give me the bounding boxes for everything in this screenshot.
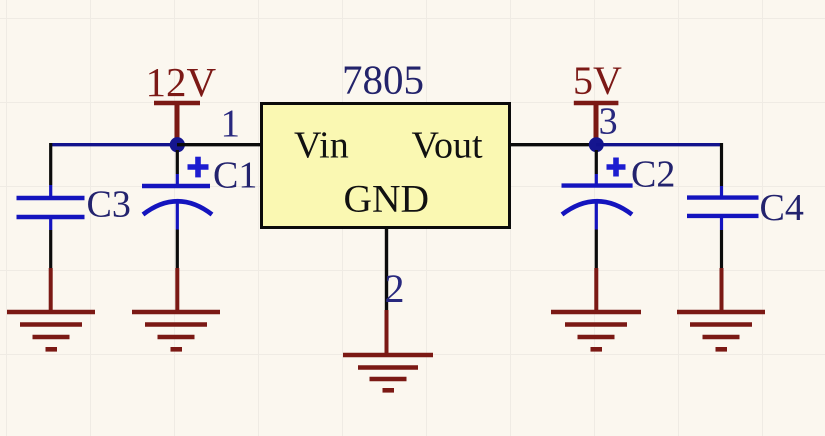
ground for C2 [551, 268, 641, 349]
polarity plus sign C2 [607, 158, 626, 177]
wire pin1 to junction [177, 143, 261, 146]
pin label GND [344, 176, 430, 220]
wire pin2 vertical [385, 228, 388, 310]
label 7805 [342, 57, 424, 103]
capacitor C2 [562, 150, 633, 268]
svg-text:C4: C4 [760, 187, 804, 229]
label C3 [87, 183, 131, 225]
capacitor C1 [142, 150, 212, 268]
pin label Vin [294, 125, 349, 167]
pin number 1 [221, 102, 241, 145]
svg-text:7805: 7805 [342, 57, 424, 103]
junction node 5V rail [589, 137, 604, 152]
svg-text:3: 3 [599, 100, 618, 142]
junction node 12V rail [170, 137, 185, 152]
svg-text:2: 2 [385, 266, 405, 311]
ground for C3 [7, 268, 95, 349]
wire 5V rail horizontal segment [596, 143, 722, 146]
regulator U1 7805 body [262, 104, 510, 228]
pin label Vout [412, 125, 484, 167]
ground for pin 2 [343, 310, 433, 390]
ground for C4 [677, 268, 765, 349]
svg-text:GND: GND [344, 176, 430, 220]
power symbol 5V [574, 103, 619, 144]
svg-text:C3: C3 [87, 183, 131, 225]
svg-text:12V: 12V [146, 59, 217, 105]
label 12V [146, 59, 217, 105]
wire C4 top vertical segment [720, 143, 723, 186]
pin number 2 [385, 266, 405, 311]
wire pin3 to junction [509, 143, 596, 146]
svg-text:1: 1 [221, 102, 241, 145]
polarity plus sign C1 [188, 157, 209, 178]
label C2 [631, 154, 675, 196]
label C4 [760, 187, 804, 229]
power symbol 12V [154, 103, 200, 144]
svg-text:Vin: Vin [294, 125, 349, 167]
label 5V [573, 58, 622, 103]
svg-text:C1: C1 [213, 155, 257, 197]
svg-text:5V: 5V [573, 58, 622, 103]
svg-text:C2: C2 [631, 154, 675, 196]
ground for C1 [132, 268, 220, 349]
wire 12V rail horizontal segment [51, 143, 177, 146]
svg-text:Vout: Vout [412, 125, 484, 167]
label C1 [213, 155, 257, 197]
pin number 3 [599, 100, 618, 142]
capacitor C3 [17, 185, 85, 268]
capacitor C4 [687, 186, 759, 268]
wire C3 top vertical segment [49, 143, 52, 185]
